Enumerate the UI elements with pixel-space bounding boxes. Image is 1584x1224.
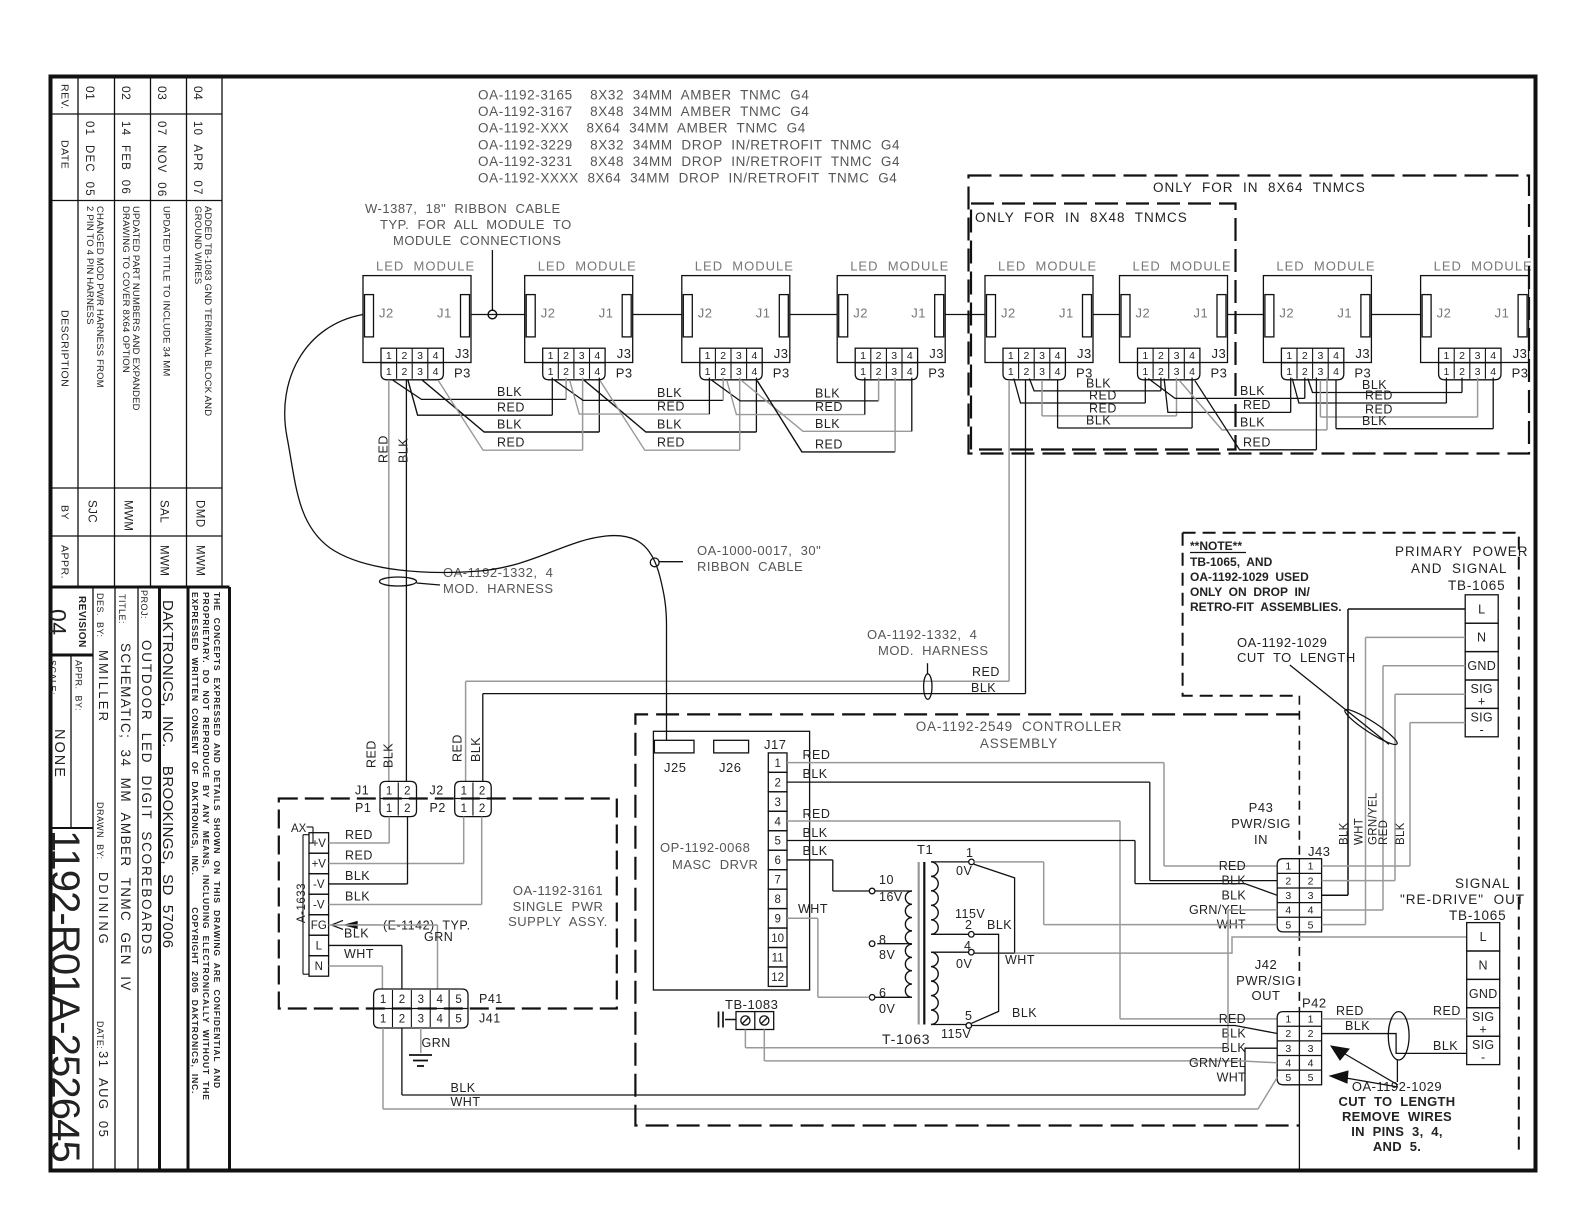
svg-text:3: 3 (1308, 1043, 1314, 1055)
svg-text:BLK: BLK (345, 869, 370, 883)
svg-text:2: 2 (1302, 350, 1308, 362)
svg-text:RED: RED (1243, 398, 1271, 412)
svg-text:OA-1192-XXXX 8X64 34MM DROP: OA-1192-XXXX 8X64 34MM DROP IN/RETROFIT … (478, 171, 897, 186)
svg-text:J3: J3 (929, 346, 944, 361)
svg-text:SCALE:: SCALE: (48, 660, 58, 695)
svg-text:4: 4 (1333, 366, 1339, 378)
svg-text:J2: J2 (853, 306, 868, 321)
svg-text:TYP. FOR ALL MODULE TO: TYP. FOR ALL MODULE TO (380, 217, 572, 232)
svg-text:BLK: BLK (1362, 414, 1387, 428)
svg-text:RED: RED (803, 807, 831, 821)
svg-text:RED: RED (815, 400, 843, 414)
svg-text:3: 3 (579, 350, 585, 362)
svg-text:4: 4 (1189, 350, 1195, 362)
svg-text:J3: J3 (455, 346, 470, 361)
svg-text:3: 3 (1475, 350, 1481, 362)
svg-text:GRN/YEL: GRN/YEL (1189, 1056, 1246, 1070)
svg-text:RED: RED (1089, 389, 1117, 403)
svg-text:RED: RED (1433, 1004, 1461, 1018)
svg-text:2: 2 (563, 366, 569, 378)
svg-text:ONLY ON DROP IN/: ONLY ON DROP IN/ (1190, 585, 1310, 599)
svg-text:APPR. BY:: APPR. BY: (74, 660, 84, 711)
svg-text:7: 7 (774, 875, 780, 887)
svg-text:BLK: BLK (987, 918, 1012, 932)
svg-text:J1: J1 (1194, 306, 1209, 321)
svg-text:BLK: BLK (1339, 822, 1351, 845)
svg-text:4: 4 (1308, 905, 1314, 917)
svg-text:4: 4 (964, 939, 971, 953)
svg-text:2: 2 (876, 366, 882, 378)
svg-text:J1: J1 (1337, 306, 1352, 321)
svg-text:RED: RED (345, 828, 373, 842)
svg-text:SAL: SAL (158, 500, 170, 523)
svg-text:1: 1 (966, 846, 973, 860)
svg-text:LED MODULE: LED MODULE (695, 259, 794, 274)
svg-text:IN PINS 3, 4,: IN PINS 3, 4, (1351, 1124, 1443, 1139)
svg-text:BLK: BLK (382, 743, 396, 768)
svg-text:BLK: BLK (971, 681, 996, 695)
svg-text:1: 1 (461, 785, 467, 797)
svg-text:RED: RED (657, 400, 685, 414)
svg-text:L: L (316, 941, 323, 953)
svg-text:2: 2 (876, 350, 882, 362)
svg-text:AND 5.: AND 5. (1373, 1139, 1421, 1154)
svg-text:+V: +V (312, 838, 327, 850)
svg-text:DMD: DMD (194, 500, 206, 528)
svg-text:BLK: BLK (469, 737, 483, 762)
svg-text:RED: RED (1219, 1012, 1246, 1026)
svg-text:OA-1192-1029 USED: OA-1192-1029 USED (1190, 570, 1309, 584)
svg-text:5: 5 (774, 836, 780, 848)
svg-text:RED: RED (972, 665, 1000, 679)
svg-text:J1: J1 (437, 306, 452, 321)
svg-text:1: 1 (386, 785, 392, 797)
svg-text:2: 2 (401, 350, 407, 362)
svg-text:2: 2 (404, 785, 410, 797)
svg-text:2: 2 (479, 803, 485, 815)
svg-text:2: 2 (1285, 875, 1291, 887)
svg-text:1: 1 (1142, 350, 1148, 362)
svg-text:5: 5 (1308, 1072, 1314, 1084)
svg-text:LED MODULE: LED MODULE (1434, 259, 1533, 274)
svg-text:3: 3 (891, 366, 897, 378)
svg-text:2: 2 (720, 366, 726, 378)
svg-text:31 AUG 05: 31 AUG 05 (96, 1051, 111, 1138)
svg-text:02: 02 (119, 86, 133, 100)
svg-text:BLK: BLK (1345, 1019, 1370, 1033)
svg-text:3: 3 (774, 797, 780, 809)
svg-text:1: 1 (1008, 366, 1014, 378)
svg-text:OA-1192-2549 CONTROLLER: OA-1192-2549 CONTROLLER (916, 719, 1123, 734)
svg-text:2: 2 (1285, 1028, 1291, 1040)
svg-text:LED MODULE: LED MODULE (1276, 259, 1375, 274)
svg-text:1: 1 (386, 350, 392, 362)
svg-text:W-1387, 18" RIBBON CABLE: W-1387, 18" RIBBON CABLE (365, 201, 561, 216)
svg-text:BLK: BLK (1221, 1027, 1246, 1041)
svg-text:BLK: BLK (344, 926, 369, 940)
svg-text:IN: IN (1254, 832, 1268, 847)
svg-text:UPDATED TITLE TO INCLUDE 34 MM: UPDATED TITLE TO INCLUDE 34 MM (161, 206, 172, 377)
svg-text:MMILLER: MMILLER (96, 650, 111, 723)
svg-text:12: 12 (771, 972, 784, 984)
svg-text:REVISION: REVISION (76, 596, 87, 648)
svg-text:P1: P1 (355, 801, 371, 815)
svg-text:4: 4 (751, 366, 757, 378)
svg-text:1: 1 (461, 803, 467, 815)
svg-text:BLK: BLK (1240, 384, 1265, 398)
svg-text:RED: RED (1365, 389, 1393, 403)
svg-text:1: 1 (1142, 366, 1148, 378)
svg-text:J3: J3 (1355, 346, 1370, 361)
svg-text:MODULE CONNECTIONS: MODULE CONNECTIONS (393, 233, 561, 248)
svg-text:J3: J3 (617, 346, 632, 361)
svg-text:RED: RED (1243, 435, 1271, 449)
svg-text:REMOVE WIRES: REMOVE WIRES (1342, 1109, 1452, 1124)
svg-text:GROUND WIRES: GROUND WIRES (192, 206, 203, 284)
svg-text:J25: J25 (664, 760, 686, 775)
svg-text:10: 10 (771, 933, 784, 945)
svg-text:J2: J2 (541, 306, 556, 321)
svg-text:BLK: BLK (397, 438, 411, 463)
svg-text:BLK: BLK (1012, 1006, 1037, 1020)
svg-text:RED: RED (1219, 859, 1246, 873)
svg-text:J3: J3 (774, 346, 789, 361)
svg-text:4: 4 (1490, 350, 1496, 362)
svg-text:+V: +V (312, 859, 327, 871)
svg-text:BLK: BLK (497, 418, 522, 432)
svg-text:MWM: MWM (194, 545, 206, 577)
svg-text:04: 04 (191, 86, 205, 100)
svg-text:RED: RED (815, 437, 843, 451)
svg-text:6: 6 (774, 855, 780, 867)
svg-text:-: - (1481, 1051, 1485, 1065)
svg-text:J3: J3 (1212, 346, 1227, 361)
svg-text:3: 3 (579, 366, 585, 378)
svg-text:5: 5 (1285, 919, 1291, 931)
svg-text:3: 3 (1475, 366, 1481, 378)
svg-text:TB-1065, AND: TB-1065, AND (1190, 555, 1273, 569)
svg-text:NONE: NONE (51, 729, 67, 779)
svg-text:+: + (1479, 1022, 1487, 1036)
svg-text:03: 03 (155, 86, 169, 100)
svg-text:BLK: BLK (1240, 415, 1265, 429)
svg-text:J2: J2 (1001, 306, 1016, 321)
svg-text:2: 2 (1459, 350, 1465, 362)
svg-text:01: 01 (83, 86, 97, 100)
svg-text:BLK: BLK (451, 1081, 476, 1095)
svg-text:5: 5 (1308, 919, 1314, 931)
svg-text:2: 2 (1302, 366, 1308, 378)
svg-text:P3: P3 (616, 366, 633, 381)
svg-text:P3: P3 (1211, 366, 1228, 381)
svg-text:J2: J2 (430, 783, 444, 797)
svg-text:OA-1192-3167 8X48 34MM AM: OA-1192-3167 8X48 34MM AMBER TNMC G4 (478, 104, 809, 119)
svg-text:PROJ:: PROJ: (139, 590, 149, 619)
svg-text:5: 5 (455, 994, 461, 1006)
svg-text:4: 4 (1490, 366, 1496, 378)
svg-text:1: 1 (860, 366, 866, 378)
svg-text:2: 2 (1459, 366, 1465, 378)
svg-text:BLK: BLK (1433, 1039, 1458, 1053)
svg-text:+: + (1478, 695, 1486, 709)
svg-text:P2: P2 (430, 801, 446, 815)
svg-text:P43: P43 (1249, 800, 1274, 815)
svg-text:J1: J1 (756, 306, 771, 321)
svg-text:J41: J41 (479, 1012, 501, 1026)
svg-text:CUT TO LENGTH: CUT TO LENGTH (1237, 650, 1356, 665)
svg-text:BLK: BLK (815, 386, 840, 400)
svg-text:10 APR 07: 10 APR 07 (191, 121, 203, 196)
svg-text:ASSEMBLY: ASSEMBLY (980, 736, 1058, 751)
svg-text:0V: 0V (879, 1002, 895, 1016)
svg-text:115V: 115V (941, 1027, 971, 1041)
svg-text:2: 2 (1158, 366, 1164, 378)
svg-text:P42: P42 (1302, 996, 1327, 1011)
svg-text:MASC DRVR: MASC DRVR (672, 857, 758, 872)
svg-text:J3: J3 (1513, 346, 1528, 361)
svg-text:J2: J2 (1136, 306, 1151, 321)
svg-text:DAKTRONICS, INC. BROOKINGS: DAKTRONICS, INC. BROOKINGS, SD 57006 (159, 600, 176, 949)
svg-text:1: 1 (774, 758, 780, 770)
svg-text:J3: J3 (1077, 346, 1092, 361)
svg-text:WHT: WHT (451, 1095, 481, 1109)
svg-text:WHT: WHT (1217, 1070, 1246, 1084)
svg-text:1: 1 (1308, 861, 1314, 873)
svg-text:N: N (1477, 631, 1486, 645)
svg-text:04: 04 (45, 609, 71, 636)
svg-text:4: 4 (1055, 366, 1061, 378)
svg-text:MWM: MWM (122, 500, 134, 532)
svg-text:J1: J1 (911, 306, 926, 321)
svg-text:2: 2 (399, 1014, 405, 1026)
svg-text:RED: RED (345, 848, 373, 862)
svg-text:2: 2 (965, 918, 972, 932)
svg-text:J43: J43 (1308, 844, 1330, 859)
svg-text:P3: P3 (454, 366, 471, 381)
svg-text:T1: T1 (917, 842, 933, 857)
svg-text:ONLY FOR IN 8X48 TNMCS: ONLY FOR IN 8X48 TNMCS (975, 210, 1188, 225)
svg-text:RED: RED (657, 436, 685, 450)
svg-text:3: 3 (1039, 350, 1045, 362)
svg-text:MWM: MWM (158, 545, 170, 577)
svg-text:OA-1192-1332, 4: OA-1192-1332, 4 (867, 627, 977, 642)
svg-text:3: 3 (417, 366, 423, 378)
svg-text:4: 4 (594, 350, 600, 362)
svg-text:4: 4 (1285, 905, 1291, 917)
svg-text:BLK: BLK (1221, 888, 1246, 902)
svg-text:2: 2 (720, 350, 726, 362)
svg-text:5: 5 (455, 1014, 461, 1026)
svg-text:OA-1192-3231 8X48 34MM DR: OA-1192-3231 8X48 34MM DROP IN/RETROFIT … (478, 154, 900, 169)
svg-text:RED: RED (377, 435, 391, 463)
svg-text:J1: J1 (1059, 306, 1074, 321)
svg-text:SINGLE PWR: SINGLE PWR (513, 899, 604, 914)
svg-text:01 DEC 05: 01 DEC 05 (83, 121, 95, 197)
svg-text:DATE: DATE (59, 140, 71, 169)
svg-text:14 FEB 06: 14 FEB 06 (119, 121, 131, 195)
svg-text:APPR.: APPR. (59, 545, 71, 579)
svg-text:1: 1 (1286, 366, 1292, 378)
svg-text:2: 2 (1023, 366, 1029, 378)
svg-text:8: 8 (774, 894, 780, 906)
svg-text:3: 3 (1317, 366, 1323, 378)
svg-text:**NOTE**: **NOTE** (1190, 539, 1242, 553)
svg-text:1: 1 (1285, 861, 1291, 873)
svg-text:2: 2 (563, 350, 569, 362)
svg-text:FG: FG (311, 920, 327, 932)
svg-text:BLK: BLK (803, 767, 828, 781)
svg-text:2: 2 (1158, 350, 1164, 362)
svg-text:DESCRIPTION: DESCRIPTION (59, 310, 71, 387)
svg-text:2: 2 (399, 994, 405, 1006)
svg-text:BLK: BLK (803, 844, 828, 858)
svg-text:OP-1192-0068: OP-1192-0068 (660, 840, 750, 855)
svg-text:BLK: BLK (1221, 874, 1246, 888)
svg-text:10: 10 (879, 873, 894, 887)
svg-text:4: 4 (774, 816, 781, 828)
svg-text:PRIMARY POWER: PRIMARY POWER (1395, 544, 1529, 559)
svg-text:11: 11 (772, 953, 784, 965)
svg-text:OA-1192-3229 8X32 34MM DR: OA-1192-3229 8X32 34MM DROP IN/RETROFIT … (478, 137, 900, 152)
svg-text:2: 2 (774, 777, 780, 789)
svg-text:TB-1065: TB-1065 (1449, 908, 1506, 923)
svg-text:RED: RED (1336, 1004, 1364, 1018)
svg-text:J17: J17 (764, 737, 786, 752)
svg-text:N: N (1479, 959, 1488, 973)
svg-text:BLK: BLK (1086, 414, 1111, 428)
svg-text:1192-R01A-252645: 1192-R01A-252645 (43, 830, 87, 1162)
svg-text:4: 4 (433, 366, 439, 378)
svg-text:OA-1000-0017, 30": OA-1000-0017, 30" (697, 543, 821, 558)
svg-text:3: 3 (418, 994, 424, 1006)
svg-text:4: 4 (436, 1014, 443, 1026)
svg-text:1: 1 (1286, 350, 1292, 362)
svg-text:J2: J2 (1437, 306, 1452, 321)
svg-text:LED MODULE: LED MODULE (850, 259, 949, 274)
svg-text:LED MODULE: LED MODULE (538, 259, 637, 274)
svg-text:2: 2 (404, 803, 410, 815)
svg-text:1: 1 (380, 1014, 386, 1026)
svg-text:6: 6 (879, 986, 886, 1000)
svg-text:8V: 8V (879, 948, 895, 962)
svg-text:LED MODULE: LED MODULE (1133, 259, 1232, 274)
svg-text:1: 1 (1443, 350, 1449, 362)
svg-text:RED: RED (1378, 820, 1390, 845)
svg-text:DES. BY:: DES. BY: (95, 593, 105, 638)
svg-text:1: 1 (860, 350, 866, 362)
svg-text:GRN: GRN (422, 1036, 451, 1050)
svg-text:GRN: GRN (424, 930, 453, 944)
svg-text:BLK: BLK (1221, 1041, 1246, 1055)
svg-text:8: 8 (879, 933, 886, 947)
svg-text:T-1063: T-1063 (882, 1031, 930, 1047)
svg-text:1: 1 (386, 803, 392, 815)
svg-text:5: 5 (1285, 1072, 1291, 1084)
svg-text:SJC: SJC (86, 500, 98, 523)
svg-text:TB-1065: TB-1065 (1448, 578, 1505, 593)
svg-text:3: 3 (1174, 350, 1180, 362)
svg-text:DRAWN BY:: DRAWN BY: (95, 802, 105, 860)
svg-text:ONLY FOR IN 8X64 TNMCS: ONLY FOR IN 8X64 TNMCS (1153, 180, 1366, 195)
svg-text:GND: GND (1467, 659, 1496, 673)
svg-text:SIGNAL: SIGNAL (1455, 876, 1511, 891)
svg-text:J42: J42 (1255, 957, 1277, 972)
svg-text:OUTDOOR LED DIGIT SCOREBOAR: OUTDOOR LED DIGIT SCOREBOARDS (139, 640, 154, 956)
svg-text:4: 4 (1333, 350, 1339, 362)
svg-text:AND SIGNAL: AND SIGNAL (1411, 561, 1508, 576)
svg-text:1: 1 (705, 366, 711, 378)
svg-text:4: 4 (907, 350, 913, 362)
svg-text:2: 2 (1308, 875, 1314, 887)
svg-text:1: 1 (1285, 1014, 1291, 1026)
svg-text:PROPRIETARY. DO NOT REPRODU: PROPRIETARY. DO NOT REPRODUCE BY ANY MEA… (201, 592, 211, 1101)
svg-text:P3: P3 (773, 366, 790, 381)
svg-text:SCHEMATIC; 34 MM AMBER TNM: SCHEMATIC; 34 MM AMBER TNMC GEN IV (118, 643, 133, 992)
svg-text:3: 3 (736, 350, 742, 362)
svg-text:TITLE:: TITLE: (117, 594, 127, 624)
svg-text:4: 4 (1189, 366, 1195, 378)
svg-text:PWR/SIG: PWR/SIG (1236, 973, 1296, 988)
svg-text:EXPRESSED WRITTEN CONSENT O: EXPRESSED WRITTEN CONSENT OF DAKTRONICS,… (190, 592, 200, 1094)
svg-text:4: 4 (1308, 1058, 1314, 1070)
svg-text:BLK: BLK (657, 418, 682, 432)
svg-text:OA-1192-3161: OA-1192-3161 (513, 883, 603, 898)
svg-text:RIBBON CABLE: RIBBON CABLE (697, 559, 803, 574)
svg-text:4: 4 (436, 994, 443, 1006)
svg-text:A-1633: A-1633 (296, 883, 308, 923)
svg-text:J1: J1 (1495, 306, 1510, 321)
svg-text:16V: 16V (879, 890, 903, 904)
svg-text:4: 4 (907, 366, 913, 378)
svg-text:BLK: BLK (1395, 822, 1407, 845)
svg-text:J1: J1 (599, 306, 614, 321)
svg-text:MOD. HARNESS: MOD. HARNESS (443, 581, 554, 596)
svg-text:1: 1 (386, 366, 392, 378)
svg-text:3: 3 (891, 350, 897, 362)
svg-text:AX: AX (291, 823, 307, 835)
svg-text:1: 1 (1443, 366, 1449, 378)
svg-text:0V: 0V (956, 957, 972, 971)
svg-text:WHT: WHT (344, 947, 374, 961)
svg-text:2: 2 (1308, 1028, 1314, 1040)
svg-text:0V: 0V (956, 864, 972, 878)
svg-text:07 NOV 06: 07 NOV 06 (155, 121, 167, 197)
svg-text:RED: RED (497, 436, 525, 450)
svg-text:RETRO-FIT ASSEMBLIES.: RETRO-FIT ASSEMBLIES. (1190, 600, 1342, 614)
svg-text:BLK: BLK (657, 386, 682, 400)
svg-text:LED MODULE: LED MODULE (376, 259, 475, 274)
svg-text:P3: P3 (928, 366, 945, 381)
svg-text:LED MODULE: LED MODULE (998, 259, 1097, 274)
svg-text:-V: -V (313, 879, 325, 891)
svg-text:PWR/SIG: PWR/SIG (1231, 816, 1291, 831)
svg-text:J1: J1 (355, 783, 369, 797)
svg-text:"RE-DRIVE" OUT: "RE-DRIVE" OUT (1400, 892, 1525, 907)
svg-text:GND: GND (1469, 987, 1498, 1001)
svg-text:WHT: WHT (798, 902, 828, 916)
svg-text:RED: RED (365, 740, 379, 768)
svg-text:MOD. HARNESS: MOD. HARNESS (878, 643, 989, 658)
svg-text:P41: P41 (479, 992, 503, 1006)
svg-text:OA-1192-1029: OA-1192-1029 (1237, 635, 1327, 650)
svg-text:3: 3 (1174, 366, 1180, 378)
svg-text:3: 3 (417, 350, 423, 362)
svg-text:CUT TO LENGTH: CUT TO LENGTH (1339, 1094, 1456, 1109)
svg-text:BY: BY (59, 505, 71, 520)
svg-text:RED: RED (497, 401, 525, 415)
svg-text:-: - (1479, 723, 1483, 737)
svg-text:3: 3 (1285, 1043, 1291, 1055)
